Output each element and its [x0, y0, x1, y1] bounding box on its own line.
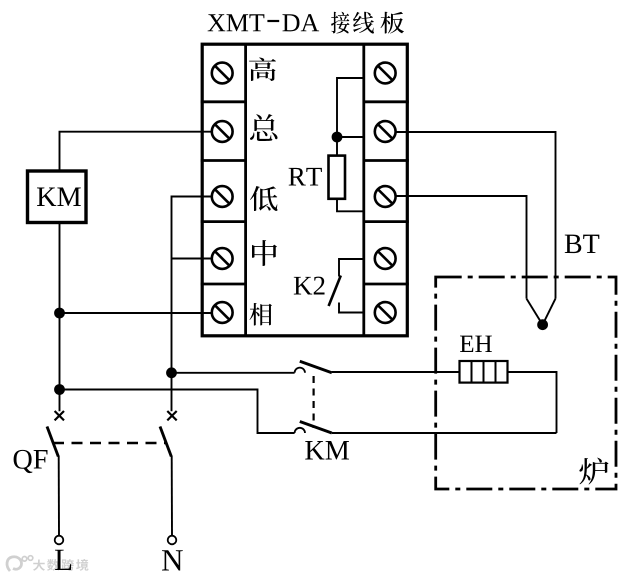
label 炉 — [579, 458, 608, 485]
K2 lower stub wire (to right row5 terminal) — [339, 303, 364, 313]
terminal screw right row 3 — [375, 186, 396, 207]
K2 upper stub wire (to right row4 terminal) — [339, 259, 364, 277]
label KM (contacts) — [305, 441, 324, 459]
wire 低 terminal jumper — [172, 197, 212, 412]
title dash between XMT and DA — [267, 20, 279, 22]
contactor coil KM box — [28, 171, 87, 223]
label N — [162, 550, 183, 570]
QF pole 2 bottom terminal circle — [168, 536, 177, 545]
label RT — [289, 168, 306, 186]
left column cell divider 1 — [201, 100, 246, 103]
left column cell divider 3 — [201, 220, 246, 223]
wire EH right side return loop — [508, 372, 557, 433]
label 总 — [250, 114, 278, 141]
terminal screw right row 5 — [375, 302, 396, 323]
QF pole 1 lower wire — [58, 456, 60, 536]
left column cell divider 2 — [201, 159, 246, 162]
contactor KM upper blade — [300, 361, 332, 373]
wire junction to KM lower contact — [60, 390, 295, 434]
label QF — [14, 450, 33, 473]
label KM (coil) — [37, 188, 56, 206]
node junction dot (KM upper contact tap) — [166, 367, 177, 378]
wire right row2 terminal to BT — [396, 132, 556, 299]
contactor KM lower blade — [300, 422, 332, 434]
QF pole 1 bottom terminal circle — [55, 536, 64, 545]
thermocouple BT tip V left — [527, 299, 543, 325]
wire KM upper contact to EH — [332, 371, 460, 373]
breaker QF pole 2 blade — [160, 427, 171, 457]
label 高 — [249, 57, 276, 81]
wire junction to 相 terminal — [60, 312, 212, 314]
QF pole 2 contact cross — [167, 411, 176, 420]
wire right row3 terminal to BT — [396, 196, 527, 299]
wire KM lower contact to EH return — [332, 432, 557, 434]
terminal screw left row 4 (中) — [212, 248, 233, 269]
terminal board outer frame — [202, 44, 407, 336]
QF linkage dashed line — [53, 442, 166, 445]
furnace enclosure dash-dot box — [436, 277, 616, 489]
terminal board left column inner line — [244, 44, 247, 336]
thermocouple BT tip V right — [543, 299, 556, 325]
EH body divider 1 — [471, 361, 473, 383]
resistor RT — [329, 156, 346, 199]
wire from right row1 terminal to RT branch — [337, 78, 364, 137]
breaker QF pole 1 blade — [47, 427, 58, 457]
terminal screw left row 3 (低) — [212, 186, 233, 207]
wire 中 terminal to jumper — [172, 258, 212, 260]
wire KM coil bottom down to QF pole 1 — [59, 223, 61, 412]
QF pole 1 contact cross — [55, 411, 64, 420]
terminal screw left row 5 (相) — [212, 302, 233, 323]
terminal screw right row 1 — [375, 63, 396, 84]
KM lower contact fixed hook — [295, 428, 305, 433]
terminal screw right row 4 — [375, 248, 396, 269]
right column cell divider 3 — [364, 220, 409, 223]
label K2 — [294, 277, 312, 295]
title text 板 — [381, 12, 404, 34]
right column cell divider 2 — [364, 159, 409, 162]
node junction dot (KM lower contact tap) — [54, 384, 65, 395]
right column cell divider 4 — [364, 283, 409, 286]
wire from junction to right row2 terminal — [337, 136, 364, 138]
switch K2 blade — [329, 276, 341, 307]
wire RT bottom to right row3 terminal — [337, 199, 364, 212]
terminal board right column inner line — [362, 44, 365, 336]
label EH — [460, 336, 473, 352]
EH body divider 2 — [483, 361, 485, 383]
label 相 — [249, 303, 272, 326]
wire junction to RT top — [336, 137, 338, 156]
terminal screw right row 2 — [375, 121, 396, 142]
label 低 — [250, 186, 278, 211]
QF pole 2 lower wire — [171, 456, 173, 536]
node junction dot above RT — [332, 132, 343, 143]
KM contacts linkage dashed line — [313, 376, 315, 428]
EH body divider 3 — [495, 361, 497, 383]
title text XMT-DA — [208, 14, 226, 31]
watermark text 大数跨境 — [33, 559, 45, 570]
wire 总 terminal to KM coil top — [60, 132, 212, 171]
label 中 — [252, 240, 277, 266]
title text 接 — [331, 12, 349, 34]
terminal screw left row 1 (高) — [212, 63, 233, 84]
terminal screw left row 2 (总) — [212, 121, 233, 142]
left column cell divider 4 — [201, 283, 246, 286]
wire junction to KM upper contact — [172, 372, 295, 374]
label BT — [565, 235, 582, 253]
label L — [55, 550, 71, 570]
KM upper contact fixed hook — [295, 368, 305, 373]
right column cell divider 1 — [364, 100, 409, 103]
thermocouple BT junction dot — [537, 319, 548, 330]
node junction dot (相 tap) — [54, 308, 65, 319]
title text 线 — [353, 12, 374, 34]
heater EH body — [460, 361, 508, 383]
watermark logo — [7, 557, 21, 571]
